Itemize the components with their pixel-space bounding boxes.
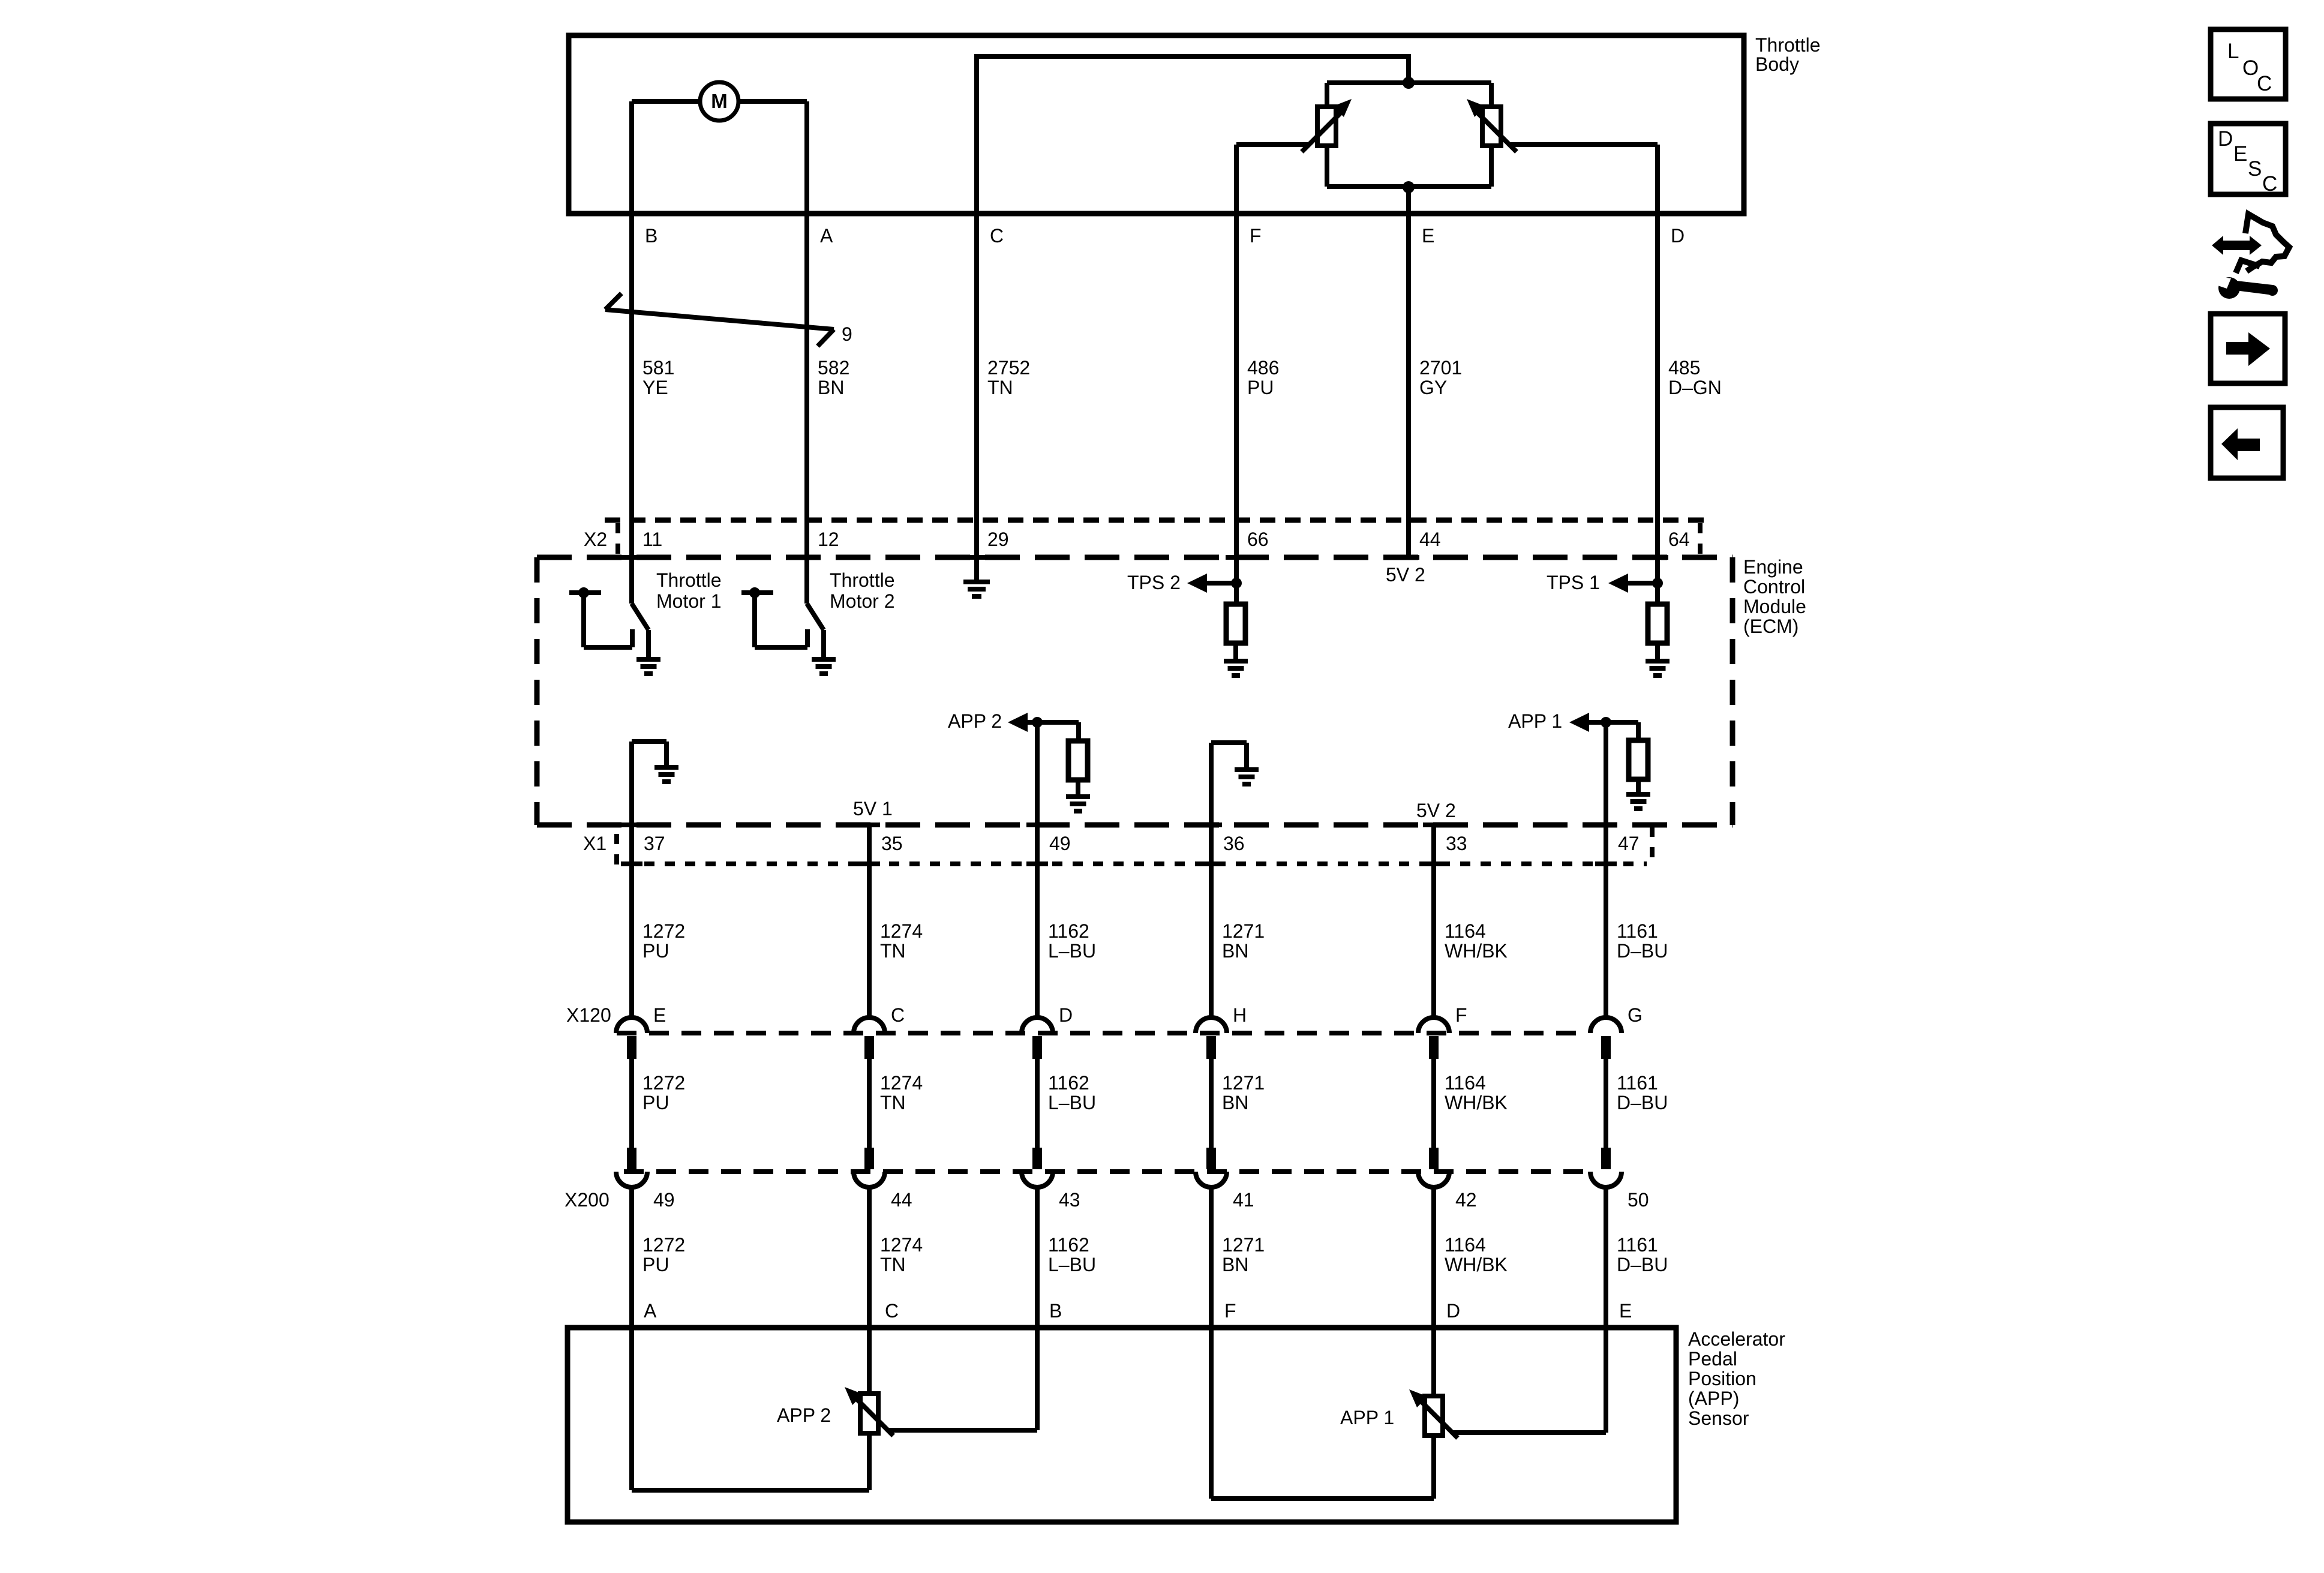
- svg-text:(APP): (APP): [1688, 1388, 1739, 1409]
- wire A (motor to X2): [804, 101, 809, 520]
- svg-text:E: E: [653, 1004, 666, 1026]
- wire label 2752 TN: [987, 357, 1030, 398]
- wire label 581 YE: [642, 357, 674, 398]
- svg-text:D–BU: D–BU: [1617, 1092, 1668, 1113]
- svg-text:F: F: [1224, 1300, 1236, 1322]
- DESC icon box: [2211, 124, 2286, 196]
- svg-text:Accelerator: Accelerator: [1688, 1328, 1785, 1350]
- ECM dashed box: [537, 557, 1733, 825]
- svg-text:Sensor: Sensor: [1688, 1407, 1749, 1429]
- svg-text:1274: 1274: [880, 1072, 923, 1094]
- ECM ground for pin 37: [632, 742, 678, 864]
- throttle motor 2 driver: [741, 520, 836, 674]
- ECM ground for pin 36: [1211, 743, 1259, 864]
- svg-text:36: 36: [1223, 833, 1245, 854]
- TPS 2 pull resistor: [1224, 604, 1248, 676]
- svg-text:PU: PU: [642, 1092, 669, 1113]
- svg-text:BN: BN: [1222, 1092, 1248, 1113]
- svg-text:1162: 1162: [1048, 920, 1089, 942]
- APP 1 pull resistor: [1626, 722, 1650, 809]
- svg-text:1164: 1164: [1445, 920, 1486, 942]
- wire label 1274 TN (row 3): [880, 1072, 923, 1113]
- connector X120 line: [617, 1031, 1589, 1035]
- svg-text:485: 485: [1668, 357, 1700, 379]
- svg-text:D: D: [1446, 1300, 1460, 1322]
- X120 socket arcs: [616, 1017, 1622, 1033]
- ECM label: [1743, 556, 1806, 637]
- wire label 582 BN: [818, 357, 849, 398]
- svg-text:49: 49: [1049, 833, 1071, 854]
- svg-text:C: C: [885, 1300, 899, 1322]
- svg-text:PU: PU: [642, 940, 669, 962]
- svg-text:G: G: [1628, 1004, 1643, 1026]
- wire label 1162 L–BU (row 2): [1048, 920, 1096, 962]
- svg-text:49: 49: [653, 1189, 675, 1211]
- svg-text:486: 486: [1247, 357, 1279, 379]
- svg-text:TN: TN: [880, 940, 906, 962]
- throttle motor 2 label: [830, 569, 894, 612]
- wire label 1164 WH/BK (row 2): [1445, 920, 1508, 962]
- wire label 1164 WH/BK (row 4): [1445, 1234, 1508, 1275]
- svg-text:GY: GY: [1419, 377, 1447, 398]
- svg-text:1274: 1274: [880, 1234, 923, 1256]
- svg-text:TN: TN: [987, 377, 1013, 398]
- svg-text:5V 1: 5V 1: [853, 798, 893, 819]
- X200 socket arcs: [616, 1172, 1622, 1187]
- svg-text:12: 12: [818, 529, 839, 550]
- wire label 1161 D–BU (row 3): [1617, 1072, 1668, 1113]
- svg-text:F: F: [1250, 225, 1262, 247]
- svg-text:(ECM): (ECM): [1743, 616, 1798, 637]
- svg-text:37: 37: [644, 833, 665, 854]
- wire label 1271 BN (row 3): [1222, 1072, 1265, 1113]
- wire label 1271 BN (row 4): [1222, 1234, 1265, 1275]
- svg-text:44: 44: [891, 1189, 912, 1211]
- svg-text:47: 47: [1618, 833, 1640, 854]
- svg-text:BN: BN: [1222, 940, 1248, 962]
- motor M leads: [632, 99, 807, 104]
- svg-text:C: C: [2257, 72, 2272, 95]
- svg-text:X200: X200: [565, 1189, 609, 1211]
- throttle body label: [1755, 34, 1820, 75]
- svg-text:TPS 2: TPS 2: [1127, 572, 1181, 593]
- svg-text:1272: 1272: [642, 1072, 685, 1094]
- svg-text:D: D: [1059, 1004, 1073, 1026]
- svg-text:E: E: [1619, 1300, 1632, 1322]
- svg-text:581: 581: [642, 357, 674, 379]
- svg-text:C: C: [2262, 172, 2277, 196]
- wire D to TPS1 wiper: [1511, 142, 1658, 147]
- wire B (motor to X2): [629, 101, 634, 520]
- APP sensor label: [1688, 1328, 1785, 1429]
- svg-text:1161: 1161: [1617, 1234, 1658, 1256]
- svg-text:D–GN: D–GN: [1668, 377, 1722, 398]
- svg-text:H: H: [1233, 1004, 1247, 1026]
- wire label 1162 L–BU (row 3): [1048, 1072, 1096, 1113]
- svg-text:Throttle: Throttle: [1755, 34, 1820, 56]
- LOC icon box: [2211, 29, 2286, 99]
- svg-text:44: 44: [1419, 529, 1441, 550]
- svg-text:1272: 1272: [642, 920, 685, 942]
- svg-text:TPS 1: TPS 1: [1547, 572, 1600, 593]
- svg-text:29: 29: [987, 529, 1009, 550]
- svg-text:YE: YE: [642, 377, 668, 398]
- svg-text:APP 1: APP 1: [1340, 1407, 1394, 1428]
- X120 pin bars: [627, 1036, 1611, 1059]
- svg-text:D: D: [1671, 225, 1685, 247]
- svg-text:TN: TN: [880, 1254, 906, 1275]
- wire D down: [1655, 145, 1660, 520]
- ground for wire C pin 29: [963, 520, 990, 596]
- wire label 2701 GY: [1419, 357, 1462, 398]
- svg-text:Throttle: Throttle: [830, 569, 894, 591]
- svg-text:D–BU: D–BU: [1617, 940, 1668, 962]
- svg-text:Body: Body: [1755, 53, 1799, 75]
- svg-text:1274: 1274: [880, 920, 923, 942]
- potentiometer TPS sensor 1 (right): [1467, 99, 1517, 152]
- forward arrow icon box: [2211, 314, 2285, 383]
- svg-text:A: A: [644, 1300, 657, 1322]
- wires X1 to X120: [632, 824, 1606, 1020]
- node junction top of TPS network: [1403, 77, 1415, 89]
- svg-text:43: 43: [1059, 1189, 1080, 1211]
- wire F to TPS2 wiper: [1236, 142, 1308, 147]
- svg-text:S: S: [2248, 157, 2262, 181]
- svg-text:33: 33: [1446, 833, 1467, 854]
- wires X200 to APP sensor: [632, 1187, 1606, 1328]
- svg-text:X120: X120: [566, 1004, 611, 1026]
- svg-text:D–BU: D–BU: [1617, 1254, 1668, 1275]
- back arrow icon box: [2211, 407, 2283, 478]
- svg-text:1162: 1162: [1048, 1234, 1089, 1256]
- adjust/wrench icon: [2212, 214, 2289, 299]
- ticks at ECM bottom edge: [621, 822, 1617, 827]
- svg-text:Pedal: Pedal: [1688, 1348, 1737, 1370]
- wire label 1274 TN (row 4): [880, 1234, 923, 1275]
- svg-text:TN: TN: [880, 1092, 906, 1113]
- svg-text:Engine: Engine: [1743, 556, 1803, 578]
- svg-text:L–BU: L–BU: [1048, 1254, 1096, 1275]
- node junction bottom of TPS network: [1403, 181, 1415, 193]
- svg-text:WH/BK: WH/BK: [1445, 1254, 1508, 1275]
- svg-text:Motor 2: Motor 2: [830, 590, 894, 612]
- svg-text:1271: 1271: [1222, 920, 1265, 942]
- connector X1 line: [617, 827, 1652, 866]
- svg-text:2701: 2701: [1419, 357, 1462, 379]
- svg-text:66: 66: [1247, 529, 1269, 550]
- svg-text:E: E: [1422, 225, 1434, 247]
- svg-text:Position: Position: [1688, 1368, 1756, 1389]
- wire label 1164 WH/BK (row 3): [1445, 1072, 1508, 1113]
- svg-text:1164: 1164: [1445, 1234, 1486, 1256]
- svg-text:PU: PU: [642, 1254, 669, 1275]
- wire label 485 D–GN: [1668, 357, 1722, 398]
- svg-text:WH/BK: WH/BK: [1445, 940, 1508, 962]
- ticks at ECM top edge: [621, 555, 1668, 560]
- svg-text:B: B: [1049, 1300, 1062, 1322]
- svg-text:M: M: [711, 90, 728, 112]
- TPS 1 signal arrow: [1547, 520, 1663, 604]
- APP 2 signal arrow: [948, 710, 1079, 864]
- wire C (TPS supply): [977, 56, 1409, 520]
- wire label 1274 TN (row 2): [880, 920, 923, 962]
- svg-text:5V 2: 5V 2: [1386, 564, 1425, 586]
- svg-text:1271: 1271: [1222, 1234, 1265, 1256]
- svg-text:Module: Module: [1743, 596, 1806, 617]
- svg-text:1162: 1162: [1048, 1072, 1089, 1094]
- svg-text:41: 41: [1233, 1189, 1254, 1211]
- wire E (sensor common): [1406, 187, 1411, 557]
- svg-text:582: 582: [818, 357, 849, 379]
- TPS 2 signal arrow: [1127, 520, 1242, 604]
- svg-text:5V 2: 5V 2: [1416, 800, 1456, 821]
- wire label 1161 D–BU (row 2): [1617, 920, 1668, 962]
- svg-text:1161: 1161: [1617, 1072, 1658, 1094]
- svg-text:WH/BK: WH/BK: [1445, 1092, 1508, 1113]
- svg-text:1161: 1161: [1617, 920, 1658, 942]
- svg-text:35: 35: [881, 833, 903, 854]
- svg-text:Motor 1: Motor 1: [656, 590, 721, 612]
- svg-text:BN: BN: [1222, 1254, 1248, 1275]
- wire F down: [1234, 145, 1239, 520]
- svg-text:E: E: [2233, 142, 2247, 166]
- svg-text:X2: X2: [584, 529, 607, 550]
- svg-text:L–BU: L–BU: [1048, 1092, 1096, 1113]
- svg-text:APP 2: APP 2: [948, 710, 1002, 732]
- svg-text:Control: Control: [1743, 576, 1805, 598]
- svg-text:C: C: [990, 225, 1004, 247]
- APP 1 signal arrow: [1508, 710, 1638, 864]
- svg-text:APP 2: APP 2: [777, 1404, 831, 1426]
- svg-text:X1: X1: [583, 833, 606, 854]
- X200 pin bars: [627, 1148, 1611, 1169]
- wire label 1272 PU (row 3): [642, 1072, 685, 1113]
- svg-text:D: D: [2218, 127, 2233, 151]
- svg-text:1272: 1272: [642, 1234, 685, 1256]
- svg-text:42: 42: [1455, 1189, 1477, 1211]
- svg-text:F: F: [1455, 1004, 1467, 1026]
- 5V 2 supply at pin 44: [1386, 557, 1425, 586]
- APP 1 potentiometer: [1211, 1328, 1606, 1499]
- motor M: [700, 82, 738, 121]
- svg-text:1271: 1271: [1222, 1072, 1265, 1094]
- TPS network rectangle: [1327, 83, 1491, 187]
- svg-text:C: C: [891, 1004, 905, 1026]
- APP 2 potentiometer: [632, 1328, 1037, 1490]
- wire label 486 PU: [1247, 357, 1279, 398]
- note 9 twisted-wire marker: [605, 293, 852, 346]
- svg-text:L–BU: L–BU: [1048, 940, 1096, 962]
- svg-text:2752: 2752: [987, 357, 1030, 379]
- APP 2 pull resistor: [1066, 722, 1090, 811]
- wire label 1162 L–BU (row 4): [1048, 1234, 1096, 1275]
- potentiometer TPS sensor 2 (left): [1302, 99, 1352, 152]
- svg-text:L: L: [2227, 40, 2239, 63]
- throttle body box: [569, 35, 1744, 214]
- svg-text:B: B: [645, 225, 657, 247]
- svg-text:64: 64: [1668, 529, 1690, 550]
- throttle motor 1 driver: [569, 520, 660, 674]
- svg-text:BN: BN: [818, 377, 844, 398]
- TPS 1 pull resistor: [1646, 604, 1670, 676]
- svg-text:1164: 1164: [1445, 1072, 1486, 1094]
- connector X200 line: [624, 1169, 1589, 1174]
- svg-text:9: 9: [842, 323, 852, 345]
- wire label 1272 PU (row 4): [642, 1234, 685, 1275]
- connector X2 line: [605, 520, 1704, 554]
- wire label 1161 D–BU (row 4): [1617, 1234, 1668, 1275]
- svg-text:Throttle: Throttle: [656, 569, 721, 591]
- svg-text:PU: PU: [1247, 377, 1274, 398]
- ticks at X1 line: [621, 861, 1617, 866]
- svg-text:50: 50: [1628, 1189, 1649, 1211]
- svg-text:11: 11: [642, 529, 662, 550]
- wires X120 to X200: [632, 1058, 1606, 1152]
- wire label 1271 BN (row 2): [1222, 920, 1265, 962]
- wire label 1272 PU (row 2): [642, 920, 685, 962]
- APP sensor box: [568, 1328, 1676, 1522]
- svg-text:APP 1: APP 1: [1508, 710, 1562, 732]
- svg-text:A: A: [820, 225, 833, 247]
- throttle motor 1 label: [656, 569, 721, 612]
